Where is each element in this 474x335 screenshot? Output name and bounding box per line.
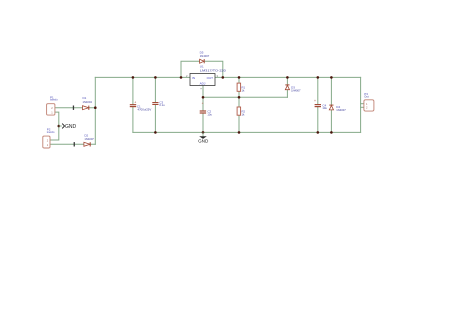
wire P3 pin1 stub <box>361 103 364 105</box>
wire R2 bottom <box>238 116 240 133</box>
wire D4 branch <box>330 77 332 132</box>
svg-text:1N4007: 1N4007 <box>291 88 301 92</box>
wire ADJ branch to D3 <box>203 96 287 98</box>
ground GND left <box>59 124 77 130</box>
wire P3 pin2 stub <box>361 106 364 108</box>
connector P1 <box>47 95 59 115</box>
wire R2 top <box>238 97 240 107</box>
tick on P2 wire <box>74 142 75 146</box>
capacitor C3 <box>152 101 165 107</box>
connector P2 <box>43 128 55 148</box>
svg-text:+: + <box>202 101 204 105</box>
junction bottom rail C4 <box>317 131 320 134</box>
junction top rail C1 <box>132 76 135 79</box>
svg-text:+: + <box>314 99 316 103</box>
wire ADJ vertical <box>202 86 204 133</box>
junction ADJ branch <box>202 96 205 99</box>
svg-text:D2: D2 <box>84 133 88 137</box>
junction top rail D4 <box>330 76 333 79</box>
svg-text:1N4004: 1N4004 <box>83 100 93 104</box>
junction GND left <box>58 125 61 128</box>
wire C3 branch <box>154 77 156 132</box>
wire right vertical <box>360 77 362 132</box>
resistor R1 <box>237 83 245 92</box>
wire C1 branch <box>132 77 134 132</box>
junction top rail C3 <box>154 76 157 79</box>
wire left vertical <box>94 77 96 144</box>
ground GND bottom <box>198 132 209 143</box>
wire top rail left <box>95 76 190 78</box>
junction ADJ R1R2 <box>238 96 241 99</box>
wire D3 branch <box>286 77 288 97</box>
wire P1 pin2 to D1 <box>55 107 95 109</box>
svg-text:10u: 10u <box>207 113 212 117</box>
capacitor C4 <box>314 99 327 110</box>
capacitor C2 <box>200 101 213 116</box>
svg-text:Out: Out <box>364 95 369 99</box>
wire C4 branch <box>317 77 319 132</box>
junction top rail D3 <box>286 76 289 79</box>
regulator U1 <box>186 64 226 89</box>
resistor R2 <box>237 107 245 116</box>
wire top rail right <box>215 76 361 78</box>
junction top rail bypass left <box>180 76 183 79</box>
junction bottom rail GND <box>202 131 205 134</box>
svg-text:4700u/25V: 4700u/25V <box>138 107 152 111</box>
wire P1 pin1 down to P2 pin2 <box>50 112 59 140</box>
svg-text:OUT: OUT <box>207 76 214 80</box>
svg-text:LM317/TO-220: LM317/TO-220 <box>200 68 227 72</box>
svg-text:D1: D1 <box>83 96 87 100</box>
diode D5 <box>200 50 210 63</box>
junction top rail bypass right <box>222 76 225 79</box>
diode D3 <box>285 85 301 92</box>
wire R1 bottom <box>238 91 240 97</box>
diode D4 <box>329 105 346 112</box>
junction bottom rail C3 <box>154 131 157 134</box>
svg-text:transfo: transfo <box>50 99 58 102</box>
wire R1 top <box>238 77 240 83</box>
svg-text:transfo: transfo <box>47 131 55 134</box>
svg-text:GND: GND <box>65 124 77 130</box>
capacitor C1 <box>130 100 152 111</box>
junction top rail C4 <box>317 76 320 79</box>
diode D1 <box>83 96 93 110</box>
svg-text:IN: IN <box>192 76 195 80</box>
svg-text:1N4007: 1N4007 <box>336 108 346 112</box>
svg-text:GND: GND <box>198 139 209 144</box>
tick on P1 wire <box>73 106 74 110</box>
junction D1 cathode <box>94 106 97 109</box>
connector P3 <box>364 92 374 111</box>
svg-text:1N4007: 1N4007 <box>200 54 210 58</box>
diode D2 <box>84 133 94 146</box>
junction bottom rail D4 <box>330 131 333 134</box>
svg-text:1N4007: 1N4007 <box>84 137 94 141</box>
junction top rail R1 <box>238 76 241 79</box>
svg-text:U1: U1 <box>200 64 204 68</box>
wire P2 pin1 to D2 <box>50 143 95 145</box>
junction bottom rail R2 <box>238 131 241 134</box>
wire bottom rail <box>133 131 361 133</box>
svg-text:0.1u: 0.1u <box>159 103 165 107</box>
svg-text:10u: 10u <box>322 106 327 110</box>
wire bypass loop <box>181 61 223 77</box>
svg-text:D5: D5 <box>200 50 204 54</box>
svg-text:ADJ: ADJ <box>200 81 206 85</box>
